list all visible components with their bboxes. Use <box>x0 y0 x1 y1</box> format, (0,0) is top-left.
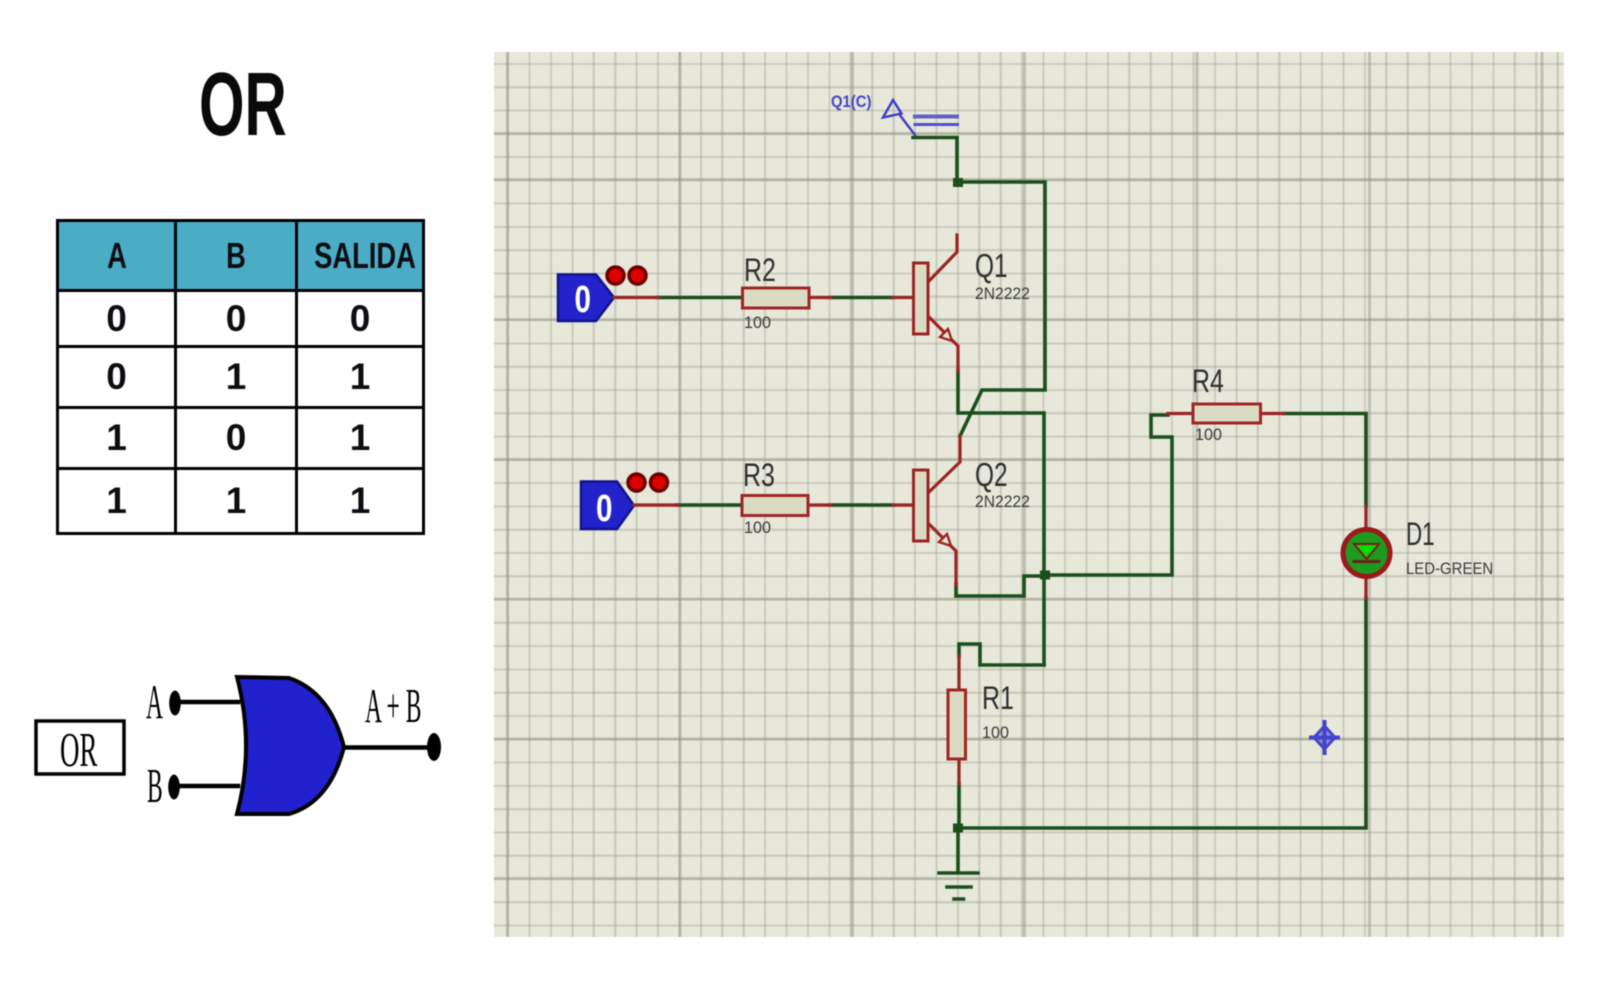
wire Q1 emitter net <box>958 370 1044 665</box>
pin B red stub <box>634 503 678 506</box>
svg-text:OR: OR <box>60 723 98 778</box>
input pin A <box>558 275 614 322</box>
svg-text:100: 100 <box>1195 425 1222 444</box>
svg-text:100: 100 <box>982 723 1009 742</box>
output terminal dot <box>427 733 441 761</box>
or-gate symbol <box>237 677 344 814</box>
wire R4 to LED <box>1284 414 1366 507</box>
resistor R3 <box>742 458 831 537</box>
pin A red stub <box>614 296 658 299</box>
svg-text:R3: R3 <box>743 458 775 494</box>
resistor R1 <box>948 656 1014 784</box>
svg-text:D1: D1 <box>1406 516 1435 552</box>
wire R1 bottom <box>958 784 959 870</box>
svg-text:2N2222: 2N2222 <box>975 285 1030 303</box>
wire collector bus Q1 to Q2 <box>957 182 1045 436</box>
junction node collector <box>953 178 963 187</box>
svg-text:Q1: Q1 <box>975 249 1008 285</box>
svg-text:100: 100 <box>744 518 771 537</box>
truth table <box>56 219 425 535</box>
pin A state dots <box>607 267 646 284</box>
title OR <box>199 54 329 157</box>
svg-text:R2: R2 <box>744 253 776 289</box>
svg-text:0: 0 <box>575 279 591 321</box>
svg-text:LED-GREEN: LED-GREEN <box>1406 560 1493 578</box>
wire R2 to Q1 base <box>830 296 893 300</box>
voltage probe Q1(C) <box>831 93 957 135</box>
wire Q2 emitter jog <box>956 576 1045 596</box>
resistor R4 <box>1168 364 1284 444</box>
origin marker <box>1311 722 1338 753</box>
wire input B <box>177 784 238 789</box>
pin B state dots <box>628 474 668 491</box>
wire input A row <box>657 296 743 300</box>
wire R3 to Q2 base <box>830 503 893 507</box>
ground <box>939 873 978 899</box>
input pin B <box>581 482 634 530</box>
transistor Q1 <box>893 235 958 371</box>
svg-text:100: 100 <box>744 313 771 332</box>
transistor Q2 <box>893 436 960 585</box>
resistor R2 <box>743 253 832 332</box>
svg-text:R1: R1 <box>982 681 1014 717</box>
LED D1 <box>1343 506 1390 598</box>
schematic grid background <box>494 52 1564 937</box>
svg-text:Q1(C): Q1(C) <box>831 93 871 111</box>
output wire <box>344 745 428 750</box>
input B terminal dot <box>168 775 180 800</box>
input A terminal dot <box>169 691 181 716</box>
svg-text:A + B: A + B <box>365 680 421 734</box>
wire output net to R4 <box>1045 415 1172 575</box>
svg-text:B: B <box>147 760 163 814</box>
svg-text:Q2: Q2 <box>975 458 1008 494</box>
wire LED to ground bus <box>958 598 1366 828</box>
wire probe to collector junction <box>913 138 957 183</box>
wire R1 top jog <box>959 644 1044 665</box>
svg-text:A: A <box>146 676 163 730</box>
junction node ground bus <box>953 824 963 833</box>
svg-text:R4: R4 <box>1192 364 1224 400</box>
junction node emitter output <box>1040 571 1050 580</box>
label box OR <box>36 721 124 777</box>
svg-text:0: 0 <box>596 488 612 530</box>
svg-text:2N2222: 2N2222 <box>975 493 1030 511</box>
wire input B row <box>677 503 743 507</box>
wire input A <box>178 700 238 705</box>
